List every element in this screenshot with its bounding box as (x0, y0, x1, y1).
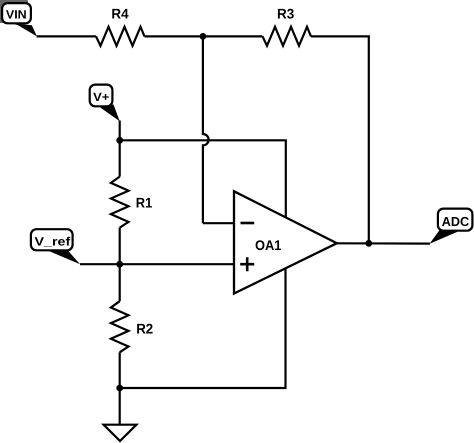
node junction dot top (R4/R3/inverting branch) (200, 33, 207, 40)
wire op-amp output (337, 242, 430, 245)
wire ground rail to op-amp negative supply (120, 268, 286, 388)
svg-text:V_ref: V_ref (35, 235, 72, 249)
net flag ADC tail (430, 229, 458, 244)
resistor R1 (111, 177, 129, 228)
wire vertical from top junction down with hop over V+ wire (203, 36, 209, 223)
svg-text:VIN: VIN (6, 8, 27, 22)
wire V+ rail to op-amp positive supply (120, 140, 286, 217)
net flag VIN box (2, 3, 31, 23)
resistor R2 (111, 301, 129, 352)
svg-text:OA1: OA1 (255, 237, 282, 253)
wire junction to ground symbol (119, 388, 121, 425)
op-amp plus input symbol (240, 257, 254, 271)
wire R4 to R3 (145, 35, 263, 37)
wire R1 to V_ref node (119, 228, 121, 265)
ground (104, 425, 137, 441)
svg-text:R4: R4 (111, 6, 128, 22)
node junction dot ground rail (116, 385, 123, 392)
wire V_ref to non-inverting input (80, 263, 235, 265)
op-amp minus input symbol (241, 222, 255, 225)
svg-text:ADC: ADC (442, 214, 470, 229)
net flag V_ref box (31, 229, 73, 250)
svg-text:R2: R2 (136, 321, 153, 337)
svg-text:R3: R3 (277, 5, 294, 21)
wire V+ junction down to R1 (119, 140, 121, 176)
wire R3 to top-right corner then down to output (311, 36, 369, 243)
resistor R4 (96, 27, 145, 46)
resistor R3 (263, 27, 312, 46)
wire top rail VIN to R4 (37, 35, 96, 37)
node junction dot V_ref (116, 261, 123, 268)
wire R2 down to ground rail (119, 352, 121, 388)
node junction dot V+ (116, 137, 123, 144)
net flag ADC box (438, 209, 473, 231)
svg-text:V+: V+ (93, 90, 109, 104)
wire V_ref node down to R2 (119, 264, 121, 301)
flag V+ backdrop tail wire (119, 121, 121, 141)
net flag V_ref tail (46, 250, 81, 265)
net flag V+ box (90, 85, 113, 107)
wire into inverting input (203, 222, 235, 224)
op-amp U1 triangle (234, 191, 337, 293)
net flag V+ tail (98, 105, 120, 122)
net flag VIN tail (12, 23, 37, 36)
node junction dot output/feedback (365, 240, 372, 247)
net flag VIN gray backdrop (clipped at canvas edge) (0, 0, 28, 23)
svg-text:R1: R1 (136, 195, 153, 211)
